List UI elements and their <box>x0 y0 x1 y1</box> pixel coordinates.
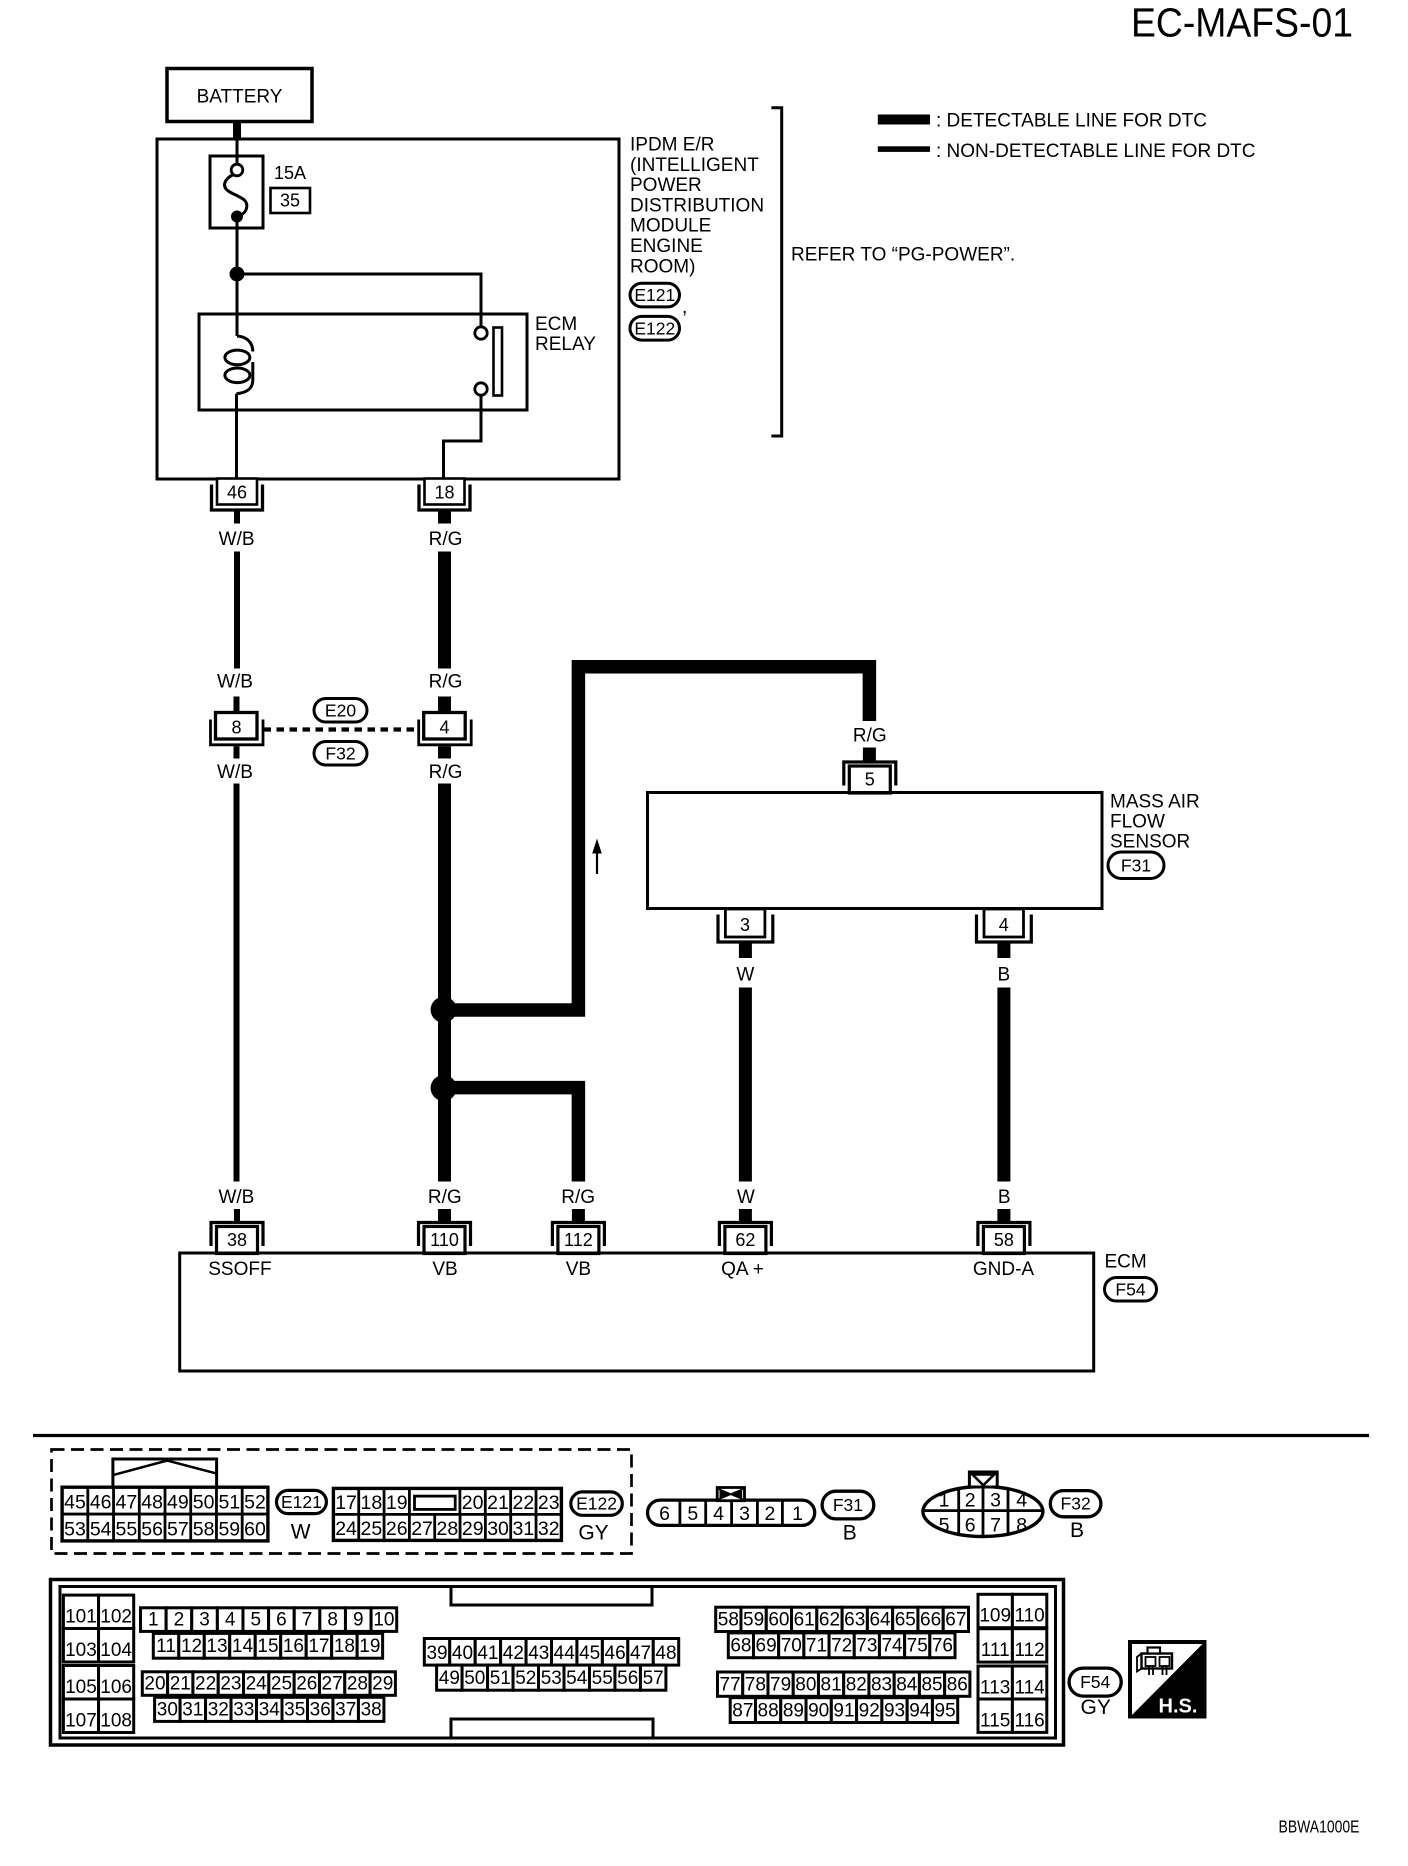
svg-text:82: 82 <box>846 1674 867 1695</box>
connector pin 4 (MAFS) <box>977 909 1032 942</box>
svg-text:3: 3 <box>990 1490 1001 1512</box>
F54 pins 109-116 block <box>978 1594 1047 1732</box>
IPDM E/R box <box>157 139 619 479</box>
svg-text:F31: F31 <box>833 1495 863 1515</box>
connector ref F31 oval (strip) <box>822 1491 874 1519</box>
svg-text:28: 28 <box>437 1518 459 1540</box>
svg-text:GY: GY <box>1081 1696 1111 1719</box>
svg-text:38: 38 <box>361 1699 382 1720</box>
svg-text:REFER TO “PG-POWER”.: REFER TO “PG-POWER”. <box>791 245 1015 266</box>
svg-text:RELAY: RELAY <box>535 334 596 355</box>
svg-text:E20: E20 <box>325 700 356 720</box>
junction dot 1 <box>431 997 457 1023</box>
svg-text:74: 74 <box>881 1636 903 1657</box>
svg-text:GND-A: GND-A <box>973 1259 1035 1280</box>
wire W/B vertical (46 to 8) <box>234 552 240 669</box>
svg-text:104: 104 <box>100 1640 132 1661</box>
connector F31 pin strip (6..1) <box>648 1500 815 1525</box>
connector F32 key (triangle) <box>969 1472 997 1487</box>
svg-text:15A: 15A <box>274 163 306 183</box>
svg-text:E122: E122 <box>576 1494 617 1514</box>
svg-text:46: 46 <box>605 1643 626 1664</box>
stub wire pin 46 <box>234 511 240 524</box>
wire IPDM top edge to fuse <box>236 140 239 165</box>
svg-text:W/B: W/B <box>217 672 253 693</box>
wire junction to relay contact <box>237 274 481 327</box>
svg-text:57: 57 <box>167 1518 189 1540</box>
svg-text:81: 81 <box>821 1674 842 1695</box>
svg-text:47: 47 <box>116 1492 138 1514</box>
F54 top notch <box>451 1588 652 1605</box>
svg-text:114: 114 <box>1014 1677 1045 1698</box>
svg-text:7: 7 <box>990 1515 1001 1537</box>
svg-text:19: 19 <box>359 1636 380 1657</box>
relay contact circles <box>475 327 487 339</box>
wire battery to IPDM <box>233 122 241 141</box>
svg-text:1: 1 <box>148 1609 159 1630</box>
svg-text:78: 78 <box>745 1674 766 1695</box>
svg-text:6: 6 <box>659 1503 670 1525</box>
connector pin 3 (MAFS) <box>718 909 773 942</box>
svg-text:38: 38 <box>227 1230 247 1250</box>
svg-text:59: 59 <box>743 1610 764 1631</box>
svg-text:59: 59 <box>218 1518 240 1540</box>
connector F32 pin oval (1-8) <box>923 1487 1043 1537</box>
svg-text:18: 18 <box>361 1492 383 1514</box>
connector E121 pin grid (45-60) <box>62 1487 268 1541</box>
svg-text:17: 17 <box>335 1492 357 1514</box>
svg-text:6: 6 <box>965 1515 976 1537</box>
connector E122 pin grid (17-32) <box>333 1488 561 1540</box>
svg-text:VB: VB <box>432 1259 457 1280</box>
connector pin 112 (ECM) <box>552 1223 604 1254</box>
svg-text:MODULE: MODULE <box>630 216 711 237</box>
svg-text:1: 1 <box>792 1503 803 1525</box>
junction dot 2 <box>431 1075 457 1101</box>
svg-text:30: 30 <box>487 1518 509 1540</box>
svg-text:10: 10 <box>373 1609 394 1630</box>
svg-text:W: W <box>291 1521 311 1544</box>
fuse number box 35 <box>271 188 311 213</box>
svg-text:F54: F54 <box>1080 1672 1110 1692</box>
svg-text:24: 24 <box>246 1673 268 1694</box>
svg-text:90: 90 <box>808 1701 829 1722</box>
svg-text:49: 49 <box>439 1668 460 1689</box>
connector ref E122 oval (grid) <box>571 1492 623 1515</box>
stub wire pin 18 <box>438 511 451 524</box>
svg-text:16: 16 <box>283 1636 304 1657</box>
svg-text:113: 113 <box>980 1677 1010 1698</box>
svg-text:32: 32 <box>208 1699 229 1720</box>
svg-text:58: 58 <box>193 1518 215 1540</box>
svg-text:66: 66 <box>920 1610 941 1631</box>
svg-text:ROOM): ROOM) <box>630 256 695 277</box>
svg-text:71: 71 <box>806 1636 827 1657</box>
battery B1 <box>167 69 312 122</box>
ECM pin function labels <box>208 1259 1034 1280</box>
stub above connector 8 <box>234 697 240 713</box>
svg-text:E121: E121 <box>281 1492 322 1512</box>
svg-text:48: 48 <box>141 1492 163 1514</box>
stub above connector 5 <box>863 748 876 762</box>
svg-text:QA +: QA + <box>721 1259 764 1280</box>
svg-text:20: 20 <box>144 1673 165 1694</box>
svg-text:35: 35 <box>284 1699 305 1720</box>
svg-text:: DETECTABLE LINE FOR DTC: : DETECTABLE LINE FOR DTC <box>936 111 1207 132</box>
svg-text:9: 9 <box>353 1609 364 1630</box>
F54 bottom notch <box>451 1719 653 1737</box>
IPDM annotation text <box>630 135 764 278</box>
svg-text:110: 110 <box>430 1230 459 1250</box>
svg-text:MASS AIR: MASS AIR <box>1110 792 1200 813</box>
svg-text:64: 64 <box>869 1610 891 1631</box>
svg-text:21: 21 <box>487 1492 509 1514</box>
svg-text:108: 108 <box>100 1711 132 1732</box>
svg-text:55: 55 <box>592 1668 613 1689</box>
bracket for PG-POWER reference <box>771 108 781 436</box>
connector ref F54 oval (big) <box>1069 1668 1121 1696</box>
svg-text:62: 62 <box>819 1610 840 1631</box>
svg-text:22: 22 <box>195 1673 216 1694</box>
svg-text:26: 26 <box>296 1673 317 1694</box>
svg-text:F31: F31 <box>1121 855 1151 875</box>
svg-text:37: 37 <box>335 1699 356 1720</box>
svg-text:73: 73 <box>856 1636 877 1657</box>
svg-text:54: 54 <box>566 1668 588 1689</box>
svg-text:87: 87 <box>732 1701 753 1722</box>
svg-text:115: 115 <box>980 1710 1010 1731</box>
F54 pins 77-95 block <box>718 1672 970 1723</box>
svg-text:45: 45 <box>64 1492 86 1514</box>
svg-text:57: 57 <box>643 1668 664 1689</box>
svg-text:ECM: ECM <box>535 314 577 335</box>
connector F54 housing outer <box>51 1580 1064 1746</box>
connector ref F32 oval (grid) <box>1050 1491 1101 1517</box>
relay contact bar <box>494 328 503 396</box>
svg-text:50: 50 <box>464 1668 485 1689</box>
svg-text:8: 8 <box>231 718 241 738</box>
svg-text:62: 62 <box>735 1230 755 1250</box>
svg-text:18: 18 <box>434 483 454 503</box>
svg-text:51: 51 <box>218 1492 240 1514</box>
svg-text:B: B <box>1070 1519 1084 1542</box>
svg-text:60: 60 <box>244 1518 266 1540</box>
junction node (dot) <box>230 267 245 282</box>
svg-text:R/G: R/G <box>853 726 887 747</box>
svg-text:5: 5 <box>251 1609 262 1630</box>
svg-text:47: 47 <box>630 1643 651 1664</box>
svg-text:111: 111 <box>981 1640 1010 1661</box>
connector pin 58 (ECM) <box>978 1223 1030 1254</box>
svg-text:W/B: W/B <box>219 529 255 550</box>
wire W/B long vertical to ECM <box>234 784 240 1182</box>
svg-text:ENGINE: ENGINE <box>630 236 703 257</box>
connector ref E20 oval <box>314 699 367 723</box>
svg-text:102: 102 <box>100 1607 132 1628</box>
connector pin 8 (E20/F32 junction) <box>211 713 264 745</box>
svg-text:R/G: R/G <box>429 529 463 550</box>
connector ref F32 oval (mid) <box>314 742 367 766</box>
mass air flow sensor box <box>648 793 1103 909</box>
svg-text:69: 69 <box>756 1636 777 1657</box>
svg-text:3: 3 <box>740 915 750 935</box>
flow direction arrow <box>592 839 602 875</box>
svg-text:FLOW: FLOW <box>1110 812 1165 833</box>
svg-text:4: 4 <box>225 1609 236 1630</box>
svg-text:42: 42 <box>503 1643 524 1664</box>
connector pin 4 (E20/F32 junction) <box>419 713 472 745</box>
F54 pins 101-108 block <box>63 1595 133 1732</box>
svg-text:51: 51 <box>490 1668 511 1689</box>
svg-text:POWER: POWER <box>630 175 702 196</box>
ECM box <box>180 1253 1094 1371</box>
stub below pin 3 <box>739 944 752 959</box>
wire color labels above ECM <box>218 1187 1010 1208</box>
svg-text:7: 7 <box>302 1609 313 1630</box>
connector E121 keying drawing <box>113 1459 217 1487</box>
svg-text:106: 106 <box>100 1677 132 1698</box>
svg-text:26: 26 <box>386 1518 408 1540</box>
svg-text:B: B <box>998 965 1011 986</box>
svg-text:18: 18 <box>334 1636 355 1657</box>
svg-text:EC-MAFS-01: EC-MAFS-01 <box>1131 0 1353 46</box>
F54 pins 1-19 block <box>141 1608 397 1658</box>
svg-text:E121: E121 <box>634 285 675 305</box>
svg-text:F54: F54 <box>1115 1279 1145 1299</box>
svg-text:25: 25 <box>361 1518 383 1540</box>
svg-text:45: 45 <box>579 1643 600 1664</box>
relay coil <box>225 314 253 479</box>
svg-text:W: W <box>736 965 754 986</box>
svg-text:3: 3 <box>199 1609 210 1630</box>
svg-text:93: 93 <box>884 1701 905 1722</box>
section separator line <box>33 1434 1369 1437</box>
svg-text:60: 60 <box>768 1610 789 1631</box>
connector pin 5 (MAFS) <box>844 762 896 793</box>
svg-text:109: 109 <box>979 1606 1011 1627</box>
connector pin 110 (ECM) <box>419 1223 471 1254</box>
svg-text:39: 39 <box>426 1643 447 1664</box>
svg-text:DISTRIBUTION: DISTRIBUTION <box>630 195 764 216</box>
F54 pins 39-57 block <box>424 1639 678 1691</box>
svg-text:58: 58 <box>994 1230 1014 1250</box>
svg-text:2: 2 <box>174 1609 185 1630</box>
svg-text:8: 8 <box>327 1609 338 1630</box>
connector ref E122 oval <box>630 316 680 340</box>
label MASS AIR FLOW SENSOR <box>1110 792 1200 853</box>
svg-text:112: 112 <box>1014 1640 1044 1661</box>
svg-text:W/B: W/B <box>218 1187 254 1208</box>
connector pin 18 (IPDM) <box>419 479 470 511</box>
svg-text:14: 14 <box>232 1636 254 1657</box>
svg-text:R/G: R/G <box>428 1187 462 1208</box>
svg-text:53: 53 <box>64 1518 86 1540</box>
svg-text:103: 103 <box>65 1640 97 1661</box>
fuse element symbol <box>225 164 247 222</box>
svg-text:30: 30 <box>157 1699 178 1720</box>
svg-text:67: 67 <box>945 1610 966 1631</box>
wire R/G branch 1 to MAFS pin 5 <box>444 667 870 1010</box>
svg-text:105: 105 <box>65 1677 97 1698</box>
svg-text:SSOFF: SSOFF <box>208 1259 271 1280</box>
svg-text:,: , <box>682 297 687 318</box>
svg-text:28: 28 <box>347 1673 368 1694</box>
svg-text:95: 95 <box>935 1701 956 1722</box>
stub below connector 8 <box>234 746 240 758</box>
wire R/G branch 2 to ECM pin 112 <box>444 1088 579 1182</box>
svg-text:77: 77 <box>720 1674 741 1695</box>
legend non-detectable line bar <box>878 146 930 152</box>
svg-text:F32: F32 <box>325 743 355 763</box>
svg-text:11: 11 <box>156 1636 176 1657</box>
connector pin 38 (ECM) <box>211 1223 263 1254</box>
svg-text:13: 13 <box>206 1636 227 1657</box>
svg-text:BATTERY: BATTERY <box>197 87 283 108</box>
svg-text:29: 29 <box>462 1518 484 1540</box>
svg-text:E122: E122 <box>634 318 675 338</box>
svg-text:94: 94 <box>909 1701 931 1722</box>
svg-text:23: 23 <box>220 1673 241 1694</box>
svg-text:56: 56 <box>141 1518 163 1540</box>
svg-text:76: 76 <box>932 1636 953 1657</box>
svg-text:3: 3 <box>739 1503 750 1525</box>
svg-text:40: 40 <box>452 1643 473 1664</box>
svg-text:49: 49 <box>167 1492 189 1514</box>
svg-text:31: 31 <box>182 1699 203 1720</box>
svg-text:116: 116 <box>1014 1710 1044 1731</box>
svg-text:GY: GY <box>578 1522 608 1545</box>
connector ref F54 oval <box>1105 1278 1157 1302</box>
svg-text:W/B: W/B <box>217 762 253 783</box>
svg-text:R/G: R/G <box>561 1187 595 1208</box>
svg-text:85: 85 <box>921 1674 942 1695</box>
svg-text:43: 43 <box>528 1643 549 1664</box>
svg-text:5: 5 <box>687 1503 698 1525</box>
svg-text:4: 4 <box>999 915 1009 935</box>
svg-text:20: 20 <box>462 1492 484 1514</box>
svg-text:55: 55 <box>116 1518 138 1540</box>
svg-text:112: 112 <box>564 1230 593 1250</box>
wire relay contact to pin 18 <box>444 395 482 478</box>
svg-text:110: 110 <box>1014 1606 1044 1627</box>
svg-text:27: 27 <box>322 1673 343 1694</box>
ECM relay box <box>199 314 527 410</box>
svg-text:B: B <box>843 1522 857 1545</box>
svg-text:52: 52 <box>515 1668 536 1689</box>
connector ref E121 oval (grid) <box>277 1490 327 1513</box>
svg-text:68: 68 <box>730 1636 751 1657</box>
wire fuse to relay coil <box>236 222 239 337</box>
F54 pins 58-76 block <box>716 1607 969 1658</box>
svg-text:23: 23 <box>538 1492 560 1514</box>
svg-text:50: 50 <box>193 1492 215 1514</box>
svg-text:29: 29 <box>372 1673 393 1694</box>
F54 pins 20-38 block <box>142 1672 395 1722</box>
svg-text:83: 83 <box>871 1674 892 1695</box>
svg-text:52: 52 <box>244 1492 266 1514</box>
svg-text:22: 22 <box>512 1492 534 1514</box>
svg-text:SENSOR: SENSOR <box>1110 832 1190 853</box>
dashed link E20-F32 <box>264 727 421 731</box>
svg-text:32: 32 <box>538 1518 560 1540</box>
svg-text:IPDM E/R: IPDM E/R <box>630 135 714 156</box>
svg-text:72: 72 <box>831 1636 852 1657</box>
svg-text:4: 4 <box>1016 1490 1027 1512</box>
svg-text:44: 44 <box>554 1643 576 1664</box>
svg-text:79: 79 <box>770 1674 791 1695</box>
svg-text:27: 27 <box>411 1518 433 1540</box>
connector pin 46 (IPDM) <box>212 479 263 511</box>
connector pin 62 (ECM) <box>719 1223 771 1254</box>
svg-text:5: 5 <box>865 770 875 790</box>
connector ref E121 oval <box>630 283 680 307</box>
svg-text:H.S.: H.S. <box>1159 1696 1198 1718</box>
svg-text:46: 46 <box>90 1492 112 1514</box>
dashed group box E121/E122 <box>52 1450 632 1554</box>
svg-text:91: 91 <box>833 1701 854 1722</box>
svg-text:33: 33 <box>233 1699 254 1720</box>
connector ref F31 oval <box>1108 852 1164 879</box>
svg-text:65: 65 <box>895 1610 916 1631</box>
svg-text:24: 24 <box>335 1518 357 1540</box>
svg-text:61: 61 <box>794 1610 815 1631</box>
svg-text:25: 25 <box>271 1673 292 1694</box>
svg-text:12: 12 <box>181 1636 202 1657</box>
svg-text:86: 86 <box>947 1674 968 1695</box>
svg-text:84: 84 <box>896 1674 918 1695</box>
svg-text:R/G: R/G <box>429 762 463 783</box>
svg-text:15: 15 <box>257 1636 278 1657</box>
connector F31 key (bowtie) <box>717 1488 744 1501</box>
svg-text:2: 2 <box>764 1503 775 1525</box>
svg-text:B: B <box>998 1187 1011 1208</box>
svg-text:19: 19 <box>386 1492 408 1514</box>
svg-text:56: 56 <box>617 1668 638 1689</box>
svg-text:2: 2 <box>965 1490 976 1512</box>
svg-text:17: 17 <box>308 1636 329 1657</box>
svg-text:75: 75 <box>907 1636 928 1657</box>
fuse box 15A #35 <box>210 156 263 228</box>
svg-text:101: 101 <box>65 1607 97 1628</box>
svg-text:ECM: ECM <box>1105 1252 1147 1273</box>
stub below connector 4 <box>438 746 451 758</box>
svg-text:R/G: R/G <box>429 672 463 693</box>
svg-text:41: 41 <box>477 1643 498 1664</box>
wire W vertical to ECM <box>739 988 752 1182</box>
legend detectable line bar <box>878 115 930 125</box>
svg-text:BBWA1000E: BBWA1000E <box>1279 1817 1360 1837</box>
wire B vertical to ECM <box>997 988 1010 1182</box>
svg-text:36: 36 <box>310 1699 331 1720</box>
svg-text:4: 4 <box>713 1503 724 1525</box>
svg-text:48: 48 <box>655 1643 676 1664</box>
svg-text:63: 63 <box>844 1610 865 1631</box>
svg-text:34: 34 <box>259 1699 281 1720</box>
svg-text:35: 35 <box>280 191 300 211</box>
svg-text:5: 5 <box>939 1515 950 1537</box>
svg-text:31: 31 <box>513 1518 535 1540</box>
svg-text:53: 53 <box>541 1668 562 1689</box>
svg-text:58: 58 <box>718 1610 739 1631</box>
svg-text:1: 1 <box>939 1490 950 1512</box>
H.S. (harness side) emblem <box>1130 1642 1205 1718</box>
svg-text:107: 107 <box>65 1711 97 1732</box>
connector F54 housing inner <box>60 1587 1056 1739</box>
svg-text:F32: F32 <box>1061 1494 1091 1514</box>
svg-text:92: 92 <box>859 1701 880 1722</box>
stub below pin 4 <box>997 944 1010 959</box>
svg-text:70: 70 <box>781 1636 802 1657</box>
